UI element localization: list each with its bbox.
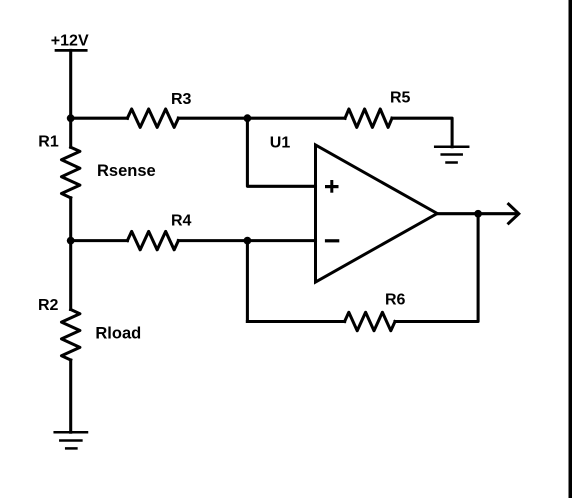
output arrow head [509,204,519,223]
wire R1 bottom to node B [69,198,72,241]
junction node B [67,237,75,245]
svg-text:U1: U1 [270,134,291,151]
+12V power terminal bar [56,49,86,52]
op-amp U1 triangle [316,145,438,282]
wire R4 to node D [178,239,247,242]
svg-text:Rsense: Rsense [97,162,156,180]
feedback wire bottom left run to R6 [247,320,344,323]
ground (top right) [435,147,468,163]
op-amp + input symbol [325,180,339,193]
wire node C to R5 [247,117,345,120]
junction node D [244,237,252,245]
resistor R2 (Rload) zigzag [62,310,80,361]
svg-text:R6: R6 [385,291,406,308]
junction node C [244,114,252,122]
svg-text:R4: R4 [171,213,192,230]
feedback wire: node D down [246,241,249,322]
wire node D to op-amp - input [247,239,315,242]
wire node C down and right to op-amp + input [247,118,315,186]
op-amp - input symbol [325,239,339,242]
resistor R5 zigzag [345,109,392,127]
svg-text:R5: R5 [390,90,411,107]
wire node B to R2 top [69,241,72,310]
resistor R1 (Rsense) zigzag [62,147,80,198]
resistor R3 zigzag [127,109,178,127]
wire R5 right, corner down to ground [392,118,452,147]
wire node A to R1 top [69,118,72,147]
feedback wire right run and up to output node E [395,214,478,322]
svg-text:Rload: Rload [95,324,141,342]
junction node E (output) [474,210,482,218]
ground (bottom left) [55,432,87,448]
wire node A to R3 [71,117,128,120]
svg-text:R3: R3 [171,91,192,108]
resistor R6 zigzag [345,312,395,330]
right edge black strip [569,0,572,498]
wire +12V bar down to node A [69,50,72,118]
wire R3 to node C [178,117,247,120]
op-amp output wire [437,212,517,215]
svg-text:R1: R1 [38,134,59,151]
resistor R4 zigzag [127,231,178,249]
svg-text:+12V: +12V [51,32,89,49]
wire R2 bottom to ground [69,360,72,432]
junction node A [67,114,75,122]
svg-text:R2: R2 [38,297,59,314]
wire node B to R4 [71,239,128,242]
